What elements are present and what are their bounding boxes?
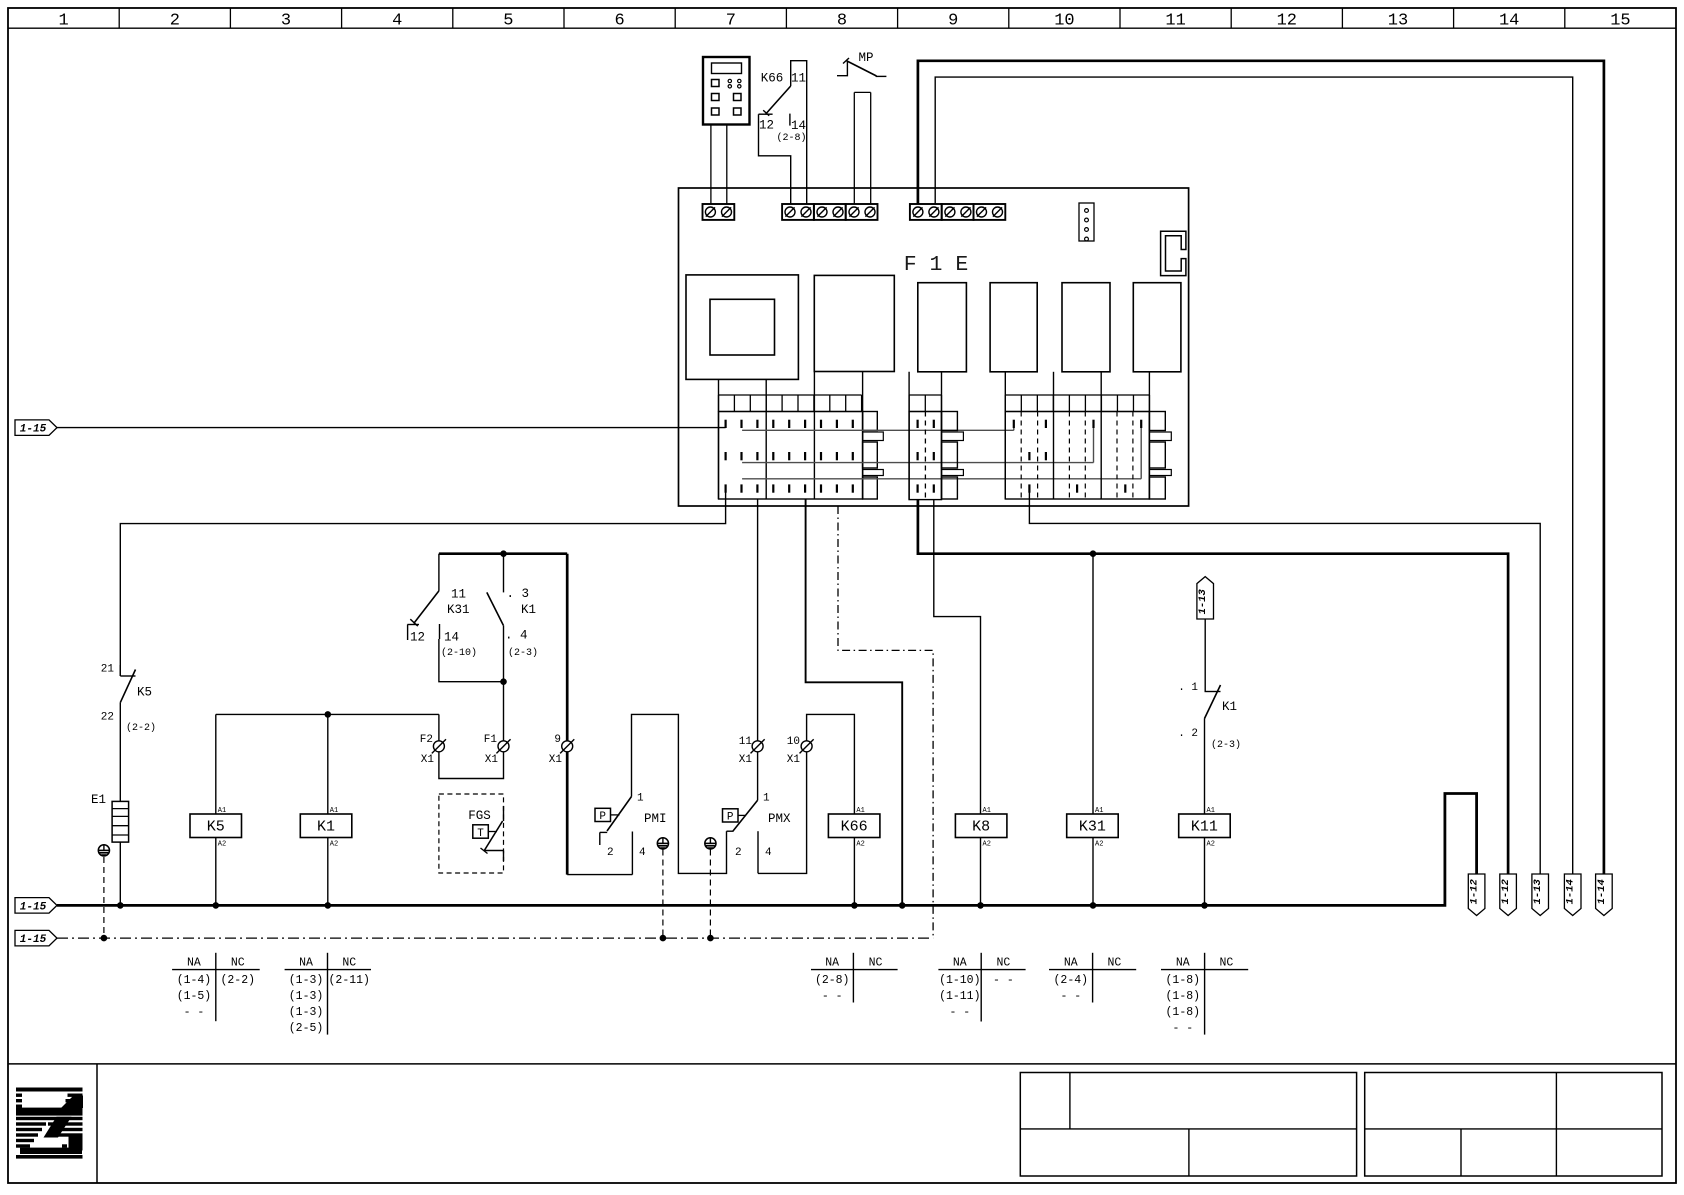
svg-text:E1: E1 <box>91 793 106 807</box>
svg-text:(2-8): (2-8) <box>815 974 850 987</box>
svg-text:13: 13 <box>1388 12 1408 31</box>
svg-text:P: P <box>727 812 734 824</box>
svg-text:K66: K66 <box>841 819 868 836</box>
svg-text:X1: X1 <box>787 754 801 766</box>
svg-text:NC: NC <box>869 957 883 970</box>
svg-text:K1: K1 <box>521 603 536 617</box>
svg-text:FGS: FGS <box>468 809 491 823</box>
svg-text:2: 2 <box>170 12 180 31</box>
svg-text:(1-3): (1-3) <box>289 990 324 1003</box>
svg-text:NA: NA <box>1064 957 1078 970</box>
svg-text:(1-5): (1-5) <box>177 990 212 1003</box>
svg-text:7: 7 <box>726 12 736 31</box>
svg-text:9: 9 <box>554 734 561 746</box>
svg-text:A2: A2 <box>330 841 338 849</box>
svg-text:F2: F2 <box>420 734 433 746</box>
svg-text:- -: - - <box>949 1006 970 1019</box>
svg-text:4: 4 <box>392 12 402 31</box>
svg-text:1-13: 1-13 <box>1532 878 1544 904</box>
svg-text:(2-10): (2-10) <box>441 647 477 659</box>
svg-text:(1-3): (1-3) <box>289 974 324 987</box>
svg-text:9: 9 <box>948 12 958 31</box>
svg-text:A1: A1 <box>856 807 864 815</box>
svg-text:5: 5 <box>503 12 513 31</box>
svg-text:K8: K8 <box>972 819 990 836</box>
svg-text:F 1 E: F 1 E <box>904 253 969 277</box>
svg-text:1: 1 <box>58 12 68 31</box>
svg-text:12: 12 <box>410 631 425 645</box>
svg-text:X1: X1 <box>421 754 435 766</box>
svg-text:(1-3): (1-3) <box>289 1006 324 1019</box>
svg-text:NC: NC <box>342 957 356 970</box>
svg-text:NA: NA <box>825 957 839 970</box>
svg-text:NA: NA <box>299 957 313 970</box>
svg-text:. 4: . 4 <box>505 629 528 643</box>
svg-text:14: 14 <box>791 119 806 133</box>
svg-text:NC: NC <box>231 957 245 970</box>
svg-text:MP: MP <box>858 51 873 65</box>
svg-text:4: 4 <box>765 847 772 859</box>
svg-text:21: 21 <box>101 664 115 676</box>
svg-text:NC: NC <box>996 957 1010 970</box>
svg-text:6: 6 <box>614 12 624 31</box>
svg-text:(2-3): (2-3) <box>1211 739 1241 751</box>
svg-text:A2: A2 <box>856 841 864 849</box>
svg-text:A2: A2 <box>218 841 226 849</box>
svg-text:P: P <box>599 811 606 823</box>
svg-text:NC: NC <box>1107 957 1121 970</box>
svg-text:A1: A1 <box>330 807 338 815</box>
svg-text:- -: - - <box>822 990 843 1003</box>
svg-text:11: 11 <box>791 72 806 86</box>
svg-text:PMI: PMI <box>644 812 667 826</box>
svg-text:A2: A2 <box>1095 841 1103 849</box>
svg-text:(1-8): (1-8) <box>1166 974 1201 987</box>
svg-text:X1: X1 <box>549 754 563 766</box>
svg-text:T: T <box>477 828 484 840</box>
svg-text:10: 10 <box>1054 12 1074 31</box>
svg-text:A1: A1 <box>1095 807 1103 815</box>
svg-text:1-15: 1-15 <box>20 901 47 913</box>
svg-text:2: 2 <box>607 847 614 859</box>
svg-text:K1: K1 <box>1222 700 1237 714</box>
svg-text:15: 15 <box>1610 12 1630 31</box>
svg-text:1: 1 <box>637 793 644 805</box>
svg-text:K31: K31 <box>447 603 470 617</box>
svg-text:A2: A2 <box>1207 841 1215 849</box>
svg-text:A2: A2 <box>983 841 991 849</box>
svg-text:NA: NA <box>187 957 201 970</box>
svg-text:. 1: . 1 <box>1178 682 1198 694</box>
svg-text:. 3: . 3 <box>507 587 530 601</box>
svg-text:(1-4): (1-4) <box>177 974 212 987</box>
svg-text:K11: K11 <box>1191 819 1218 836</box>
svg-text:8: 8 <box>837 12 847 31</box>
svg-text:(1-11): (1-11) <box>939 990 980 1003</box>
svg-text:(1-8): (1-8) <box>1166 1006 1201 1019</box>
svg-text:F1: F1 <box>484 734 498 746</box>
svg-text:PMX: PMX <box>768 812 791 826</box>
svg-text:12: 12 <box>759 119 774 133</box>
svg-text:(2-2): (2-2) <box>220 974 255 987</box>
svg-text:1-12: 1-12 <box>1469 878 1481 904</box>
svg-text:(2-8): (2-8) <box>776 132 806 144</box>
svg-text:- -: - - <box>993 974 1014 987</box>
svg-text:11: 11 <box>451 588 466 602</box>
svg-text:X1: X1 <box>485 754 499 766</box>
svg-text:(2-3): (2-3) <box>508 647 538 659</box>
svg-text:K1: K1 <box>317 819 335 836</box>
svg-text:4: 4 <box>639 847 646 859</box>
svg-text:A1: A1 <box>218 807 226 815</box>
svg-text:- -: - - <box>1060 990 1081 1003</box>
svg-text:1-15: 1-15 <box>20 934 47 946</box>
svg-text:(2-11): (2-11) <box>329 974 370 987</box>
svg-text:NA: NA <box>1176 957 1190 970</box>
svg-text:- -: - - <box>184 1006 205 1019</box>
svg-text:NA: NA <box>953 957 967 970</box>
svg-text:22: 22 <box>101 712 114 724</box>
svg-text:2: 2 <box>735 847 742 859</box>
svg-text:(1-10): (1-10) <box>939 974 980 987</box>
svg-text:1-12: 1-12 <box>1500 878 1512 904</box>
svg-text:(1-8): (1-8) <box>1166 990 1201 1003</box>
svg-text:1-13: 1-13 <box>1197 589 1209 615</box>
svg-text:1-15: 1-15 <box>20 424 47 436</box>
svg-text:3: 3 <box>281 12 291 31</box>
svg-text:1-14: 1-14 <box>1565 879 1577 904</box>
svg-text:K31: K31 <box>1079 819 1106 836</box>
svg-text:A1: A1 <box>983 807 991 815</box>
svg-text:14: 14 <box>444 631 459 645</box>
svg-text:(2-4): (2-4) <box>1054 974 1089 987</box>
svg-text:. 2: . 2 <box>1178 728 1198 740</box>
svg-text:10: 10 <box>787 736 800 748</box>
svg-text:1: 1 <box>763 793 770 805</box>
svg-text:(2-5): (2-5) <box>289 1022 324 1035</box>
svg-text:11: 11 <box>739 736 753 748</box>
svg-text:- -: - - <box>1172 1022 1193 1035</box>
svg-text:A1: A1 <box>1207 807 1215 815</box>
svg-text:K5: K5 <box>207 819 225 836</box>
svg-text:NC: NC <box>1219 957 1233 970</box>
svg-text:X1: X1 <box>739 754 753 766</box>
svg-text:K5: K5 <box>137 686 152 700</box>
svg-text:11: 11 <box>1165 12 1185 31</box>
svg-text:K66: K66 <box>761 72 784 86</box>
svg-text:14: 14 <box>1499 12 1519 31</box>
svg-text:1-14: 1-14 <box>1596 879 1608 904</box>
svg-text:12: 12 <box>1277 12 1297 31</box>
svg-text:(2-2): (2-2) <box>126 722 156 734</box>
